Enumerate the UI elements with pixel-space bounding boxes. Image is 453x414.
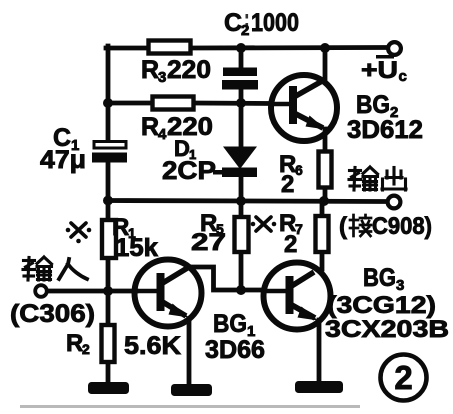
label BG1 [213,310,255,340]
label R5 [200,210,224,237]
label R2 value [124,332,181,360]
svg-text:3D612: 3D612 [347,116,423,144]
figure number 2 [381,355,427,401]
svg-text:27: 27 [191,229,226,256]
svg-text:2: 2 [281,171,294,198]
resistor R6 [319,152,332,188]
label BG2 [356,91,398,121]
terminal output [388,196,401,209]
svg-text:(3CG12): (3CG12) [327,292,436,319]
wire BG1 emitter to ground [187,319,192,386]
scan artifact bottom line [20,405,360,408]
resistor R7 [316,216,329,252]
wire D1 anode lead [239,103,244,148]
svg-text:1000: 1000 [251,9,299,37]
node mid rail R6 R7 [319,196,329,206]
label C1 value [40,146,86,174]
wire R5 bottom lead [239,253,244,290]
terminal +Uc [388,42,401,55]
label R2 [66,330,90,357]
svg-text:4: 4 [158,126,167,143]
wire left vertical below C1 [106,163,111,220]
wire BG3 emitter to ground [317,320,322,383]
svg-text:R: R [141,113,159,141]
wire BG2 collector to top rail [323,46,328,81]
label R1 value [115,234,158,262]
svg-text:2: 2 [82,341,90,357]
node top rail C2 [236,43,246,53]
node second rail C2 D1 [236,98,246,108]
node second rail left [103,98,113,108]
label BG3 [363,264,404,294]
transistor BG2 [271,75,337,141]
svg-text:BG: BG [356,91,390,119]
label BG3 alt type [327,292,436,319]
label +Uc [361,55,407,85]
label BG1 type [205,336,265,364]
node input junction [103,286,113,296]
svg-text:3CX203B: 3CX203B [325,316,449,343]
svg-text:C: C [224,9,242,37]
node mid rail left [103,196,113,206]
svg-text:2: 2 [241,22,249,39]
wire top rail [106,45,388,50]
svg-text:(: ( [339,213,347,240]
svg-text:(C306): (C306) [10,300,95,328]
svg-text:BG: BG [213,310,247,338]
wire C2 bottom lead [239,89,244,103]
node top rail BG2 collector [320,43,330,53]
label D1 type [162,157,216,185]
label D1 [174,136,196,162]
wire left vertical upper [106,46,111,141]
wire R6 to output rail [323,189,328,201]
asterisk mark right [251,217,277,231]
wire R2 to ground [106,361,111,384]
node R5 BG3 base [236,285,246,295]
node mid rail D1 [236,196,246,206]
wire C2 top lead [239,46,244,68]
label C1 [53,124,79,154]
svg-text:2CP: 2CP [162,157,216,185]
label BG2 type [347,116,423,144]
label BG3 type [325,316,449,343]
label R4 value [141,113,213,143]
transistor BG3 [262,263,331,330]
svg-text:2: 2 [394,359,412,396]
wire input terminal lead [47,289,108,294]
wire output rail to R7 [320,201,325,215]
label R6 [279,151,303,178]
wire R7 to BG3 collector [320,253,325,269]
ground below BG3 emitter [295,381,343,393]
wire R1 to input node [106,257,111,292]
wire second rail [106,101,271,106]
label C306 [10,300,95,328]
wire BG1 collector link [191,267,262,290]
svg-text:c: c [399,68,407,85]
svg-text:R: R [141,56,159,84]
label R5 value [191,229,226,256]
label output Chinese [349,167,406,190]
transistor BG1 [135,260,202,327]
capacitor C2 [222,68,258,90]
svg-text:2: 2 [284,231,297,258]
diode D1 [213,147,257,178]
resistor R1 [102,220,116,258]
terminal input [35,285,47,297]
wire mid rail [106,201,388,202]
wire D1 cathode lead [239,176,244,201]
wire BG2 emitter to R6 [323,129,328,151]
capacitor C1 [92,142,127,163]
asterisk mark left [66,223,92,243]
resistor R5 [235,217,249,252]
label R7 [279,210,303,237]
ground below BG1 emitter [171,384,212,396]
svg-text:3: 3 [158,69,166,86]
svg-text:3D66: 3D66 [205,336,265,364]
label R1 [112,214,136,241]
svg-text:C908): C908) [372,213,432,240]
svg-text:BG: BG [363,264,396,292]
wire R5 top lead [239,201,244,216]
svg-text:220: 220 [167,56,211,84]
label R3 value [141,56,211,86]
label R6 value [281,171,294,198]
label input Chinese [23,257,87,280]
svg-text:47μ: 47μ [40,146,86,174]
label C2 value [224,9,299,39]
label R7 value [284,231,297,258]
wire BG1 base lead [108,289,136,294]
scan mark colon after C2 [246,14,249,29]
ground below R2 [88,382,129,394]
wire input node to R2 [106,292,111,325]
label C908 [339,213,432,240]
resistor R2 [102,325,115,362]
svg-text:6: 6 [295,162,303,178]
resistor R3 [149,41,191,54]
svg-text:+U: +U [361,57,398,84]
svg-text:5.6K: 5.6K [124,332,181,360]
svg-text:15k: 15k [115,234,158,262]
resistor R4 [153,97,194,110]
svg-text:R: R [66,330,83,357]
